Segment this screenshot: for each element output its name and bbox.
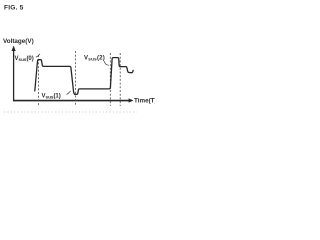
waveform sustain-pulse trace bbox=[35, 58, 133, 95]
label Vsus(2) bbox=[84, 55, 105, 61]
dashed boundary line t3 bbox=[109, 53, 111, 106]
leader for Vsus(2) bbox=[104, 61, 109, 65]
faint scan artifact dotted line bbox=[4, 111, 137, 113]
y-axis label Voltage(V) bbox=[3, 38, 34, 45]
x-axis label Time(T) bbox=[134, 97, 157, 104]
svg-text:Time(T): Time(T) bbox=[134, 97, 155, 104]
svg-text:FIG. 5: FIG. 5 bbox=[4, 4, 24, 11]
background bbox=[0, 0, 155, 120]
leader for Vsus(0) bbox=[36, 54, 40, 57]
svg-text:Vsus(2): Vsus(2) bbox=[84, 55, 105, 61]
x-axis bbox=[13, 98, 134, 102]
title FIG. 5 bbox=[4, 4, 24, 11]
leader for Vsus(1) bbox=[67, 91, 71, 95]
svg-text:Vsus(1): Vsus(1) bbox=[42, 93, 61, 99]
dashed boundary line t1 bbox=[38, 55, 40, 106]
y-axis bbox=[12, 46, 16, 102]
svg-text:Voltage(V): Voltage(V) bbox=[3, 38, 34, 45]
label Vsus(1) bbox=[42, 93, 61, 99]
dashed boundary line t4 bbox=[119, 53, 121, 106]
label Vsus(0) bbox=[15, 56, 34, 62]
svg-text:Vsus(0): Vsus(0) bbox=[15, 56, 34, 62]
dashed boundary line t2 bbox=[75, 51, 77, 106]
